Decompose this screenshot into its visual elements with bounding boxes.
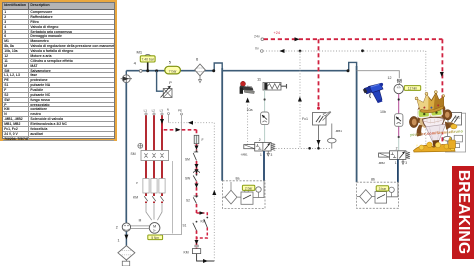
svg-text:M: M <box>139 219 142 223</box>
contact SM aux <box>185 150 198 161</box>
motor M <box>139 219 160 234</box>
wire 0v drop left <box>299 51 301 148</box>
pressure regulator unit 8a <box>223 177 266 209</box>
svg-text:3: 3 <box>271 153 273 157</box>
svg-text:SM: SM <box>131 152 136 156</box>
svg-text:L1: L1 <box>144 109 148 113</box>
wire phase L1 <box>145 115 147 203</box>
svg-text:L3: L3 <box>160 109 164 113</box>
cooler 2 <box>116 223 131 231</box>
wire cooler to intake filter <box>125 232 127 246</box>
solenoid valve MB2 <box>378 147 410 166</box>
svg-text:6: 6 <box>196 57 199 62</box>
wire +24 red dashed rail <box>264 38 443 40</box>
wire L3 tap red dashed <box>162 126 197 130</box>
svg-text:0v: 0v <box>255 47 259 51</box>
wire dotted return to 0v <box>248 148 332 150</box>
photocell Fc1 <box>302 112 331 126</box>
wire MB2 to regulator 8b <box>397 159 399 182</box>
wire cylinder to 10a <box>264 90 266 142</box>
flow control valve 10a <box>247 108 269 125</box>
wire PE to motor <box>160 115 182 235</box>
arrow on 0v rail <box>279 49 284 53</box>
filter with drain 6 <box>195 57 206 83</box>
svg-text:N: N <box>167 108 169 112</box>
svg-text:-MB1: -MB1 <box>335 129 342 133</box>
node 0v terminal <box>255 47 263 53</box>
svg-text:2: 2 <box>259 138 261 142</box>
svg-text:F: F <box>202 138 204 142</box>
mascot monkey image <box>409 89 463 152</box>
wire phase L3 <box>161 115 163 203</box>
svg-text:10a: 10a <box>247 108 253 112</box>
contact SW mushroom <box>185 171 200 182</box>
wire red dashed drop to Fc1 <box>318 39 320 107</box>
silencer inlet <box>122 260 129 266</box>
check valve 4 <box>121 61 137 83</box>
svg-text:SW: SW <box>185 177 190 181</box>
wire neutral stub <box>168 115 170 123</box>
wire phases into motor <box>146 203 162 220</box>
node vent circle on line <box>139 70 142 73</box>
cylinder 11 <box>257 77 287 91</box>
svg-text:PE: PE <box>178 109 182 113</box>
svg-text:12: 12 <box>388 76 392 80</box>
wire supply drop to 8b <box>356 66 358 182</box>
svg-text:KM: KM <box>184 251 189 255</box>
solenoid coil MB2 <box>426 113 466 152</box>
svg-text:3~: 3~ <box>153 229 157 233</box>
wire compressor riser <box>125 83 127 223</box>
intake filter 1 <box>118 239 135 261</box>
svg-text:12 Nm: 12 Nm <box>408 87 418 91</box>
node 24v terminal <box>254 35 264 41</box>
value label motor <box>148 235 163 240</box>
value label 3 bar <box>376 186 388 191</box>
solenoid coil MB1 <box>328 124 343 149</box>
BREAKING banner <box>452 166 474 259</box>
node supply terminals L1 L2 L3 N PE <box>144 108 183 116</box>
wire phase L2 <box>153 115 155 203</box>
contact S1 NO <box>183 221 198 231</box>
svg-text:10b: 10b <box>380 110 386 114</box>
solenoid valve MB1 <box>241 138 276 157</box>
node junction dot right hop <box>347 69 350 72</box>
legend table <box>0 0 117 141</box>
wire 0v drop right <box>425 51 427 148</box>
shaft cooler to motor <box>131 226 150 229</box>
svg-text:8b: 8b <box>371 178 375 182</box>
svg-text:2: 2 <box>116 226 118 230</box>
flow control valve 10b <box>380 110 403 126</box>
svg-text:7.40 bar: 7.40 bar <box>141 58 154 62</box>
svg-text:3 bar: 3 bar <box>379 187 387 191</box>
svg-text:S2: S2 <box>186 199 190 203</box>
pressure switch P <box>161 81 173 98</box>
svg-text:11: 11 <box>257 77 262 82</box>
wire motor to 10b <box>398 94 400 114</box>
wire crossover hop 1 <box>214 63 222 71</box>
wire 0v dotted rail <box>263 50 426 52</box>
contact KM aux NO <box>201 217 209 228</box>
svg-text:-MB1: -MB1 <box>241 153 248 157</box>
svg-text:-MB2: -MB2 <box>454 116 461 120</box>
wire coil return <box>197 254 215 261</box>
svg-text:4: 4 <box>134 61 137 66</box>
wire red dashed drop to Fc2 <box>441 39 443 150</box>
node 0v junction dots <box>299 50 302 53</box>
value label 2 bar <box>242 185 254 190</box>
svg-text:Fc1: Fc1 <box>302 117 308 121</box>
wire thin line to air motor <box>357 71 400 79</box>
svg-text:2 bar: 2 bar <box>245 186 253 190</box>
wire dotted solenoid link <box>247 99 249 149</box>
pressure regulator unit 8b <box>357 178 399 209</box>
svg-text:M1: M1 <box>137 50 143 55</box>
breaker SM <box>131 143 169 160</box>
contactor KM power contacts <box>133 179 165 202</box>
wire supply drop to 8a <box>221 68 223 181</box>
fuse F <box>194 135 203 143</box>
svg-text:2: 2 <box>396 147 398 151</box>
svg-text:P: P <box>169 81 172 85</box>
svg-text:5: 5 <box>169 60 172 65</box>
svg-text:L2: L2 <box>152 109 156 113</box>
wire MB1 to regulator 8a <box>263 151 265 181</box>
svg-text:3: 3 <box>405 161 407 165</box>
svg-text:S1: S1 <box>183 224 187 228</box>
node junction dot left hop <box>212 69 215 72</box>
arrow on 24v rail <box>295 37 300 41</box>
wire Fc1 to junction <box>318 125 320 148</box>
wire tank to pressure switch <box>157 71 164 91</box>
spray gun image <box>363 83 383 103</box>
wire neutral return dotted <box>169 123 215 261</box>
wire crossover hop 2 <box>349 62 357 70</box>
wire ladder red dashed <box>196 130 198 249</box>
node tank tee dot <box>155 69 158 72</box>
wire SM aux to motor <box>172 161 174 234</box>
wire branch S1 KM parallel <box>197 213 208 238</box>
air reservoir 5 with value 7 bar <box>165 60 181 74</box>
svg-text:5 Nm: 5 Nm <box>151 236 159 240</box>
svg-text:8a: 8a <box>236 177 240 181</box>
value label 12 Nm <box>404 86 420 91</box>
svg-text:KM: KM <box>133 196 138 200</box>
coil KM <box>184 245 201 254</box>
svg-text:SM: SM <box>185 158 190 162</box>
svg-text:1: 1 <box>260 153 262 157</box>
svg-text:1: 1 <box>118 239 120 243</box>
value label 7.40 bar <box>140 56 155 62</box>
svg-text:P: P <box>136 181 138 185</box>
manometer M1 <box>137 50 152 73</box>
svg-text:1: 1 <box>395 161 397 165</box>
nail gun image <box>240 81 255 94</box>
svg-text:+24: +24 <box>274 31 280 35</box>
contact S2 NC <box>186 196 198 204</box>
photocell Fc2 <box>448 113 462 126</box>
svg-text:7 bar: 7 bar <box>169 70 178 74</box>
svg-text:-MB2: -MB2 <box>378 161 385 165</box>
wire main air line <box>126 70 348 72</box>
svg-text:24v: 24v <box>254 35 260 39</box>
air motor 12 <box>388 76 404 94</box>
